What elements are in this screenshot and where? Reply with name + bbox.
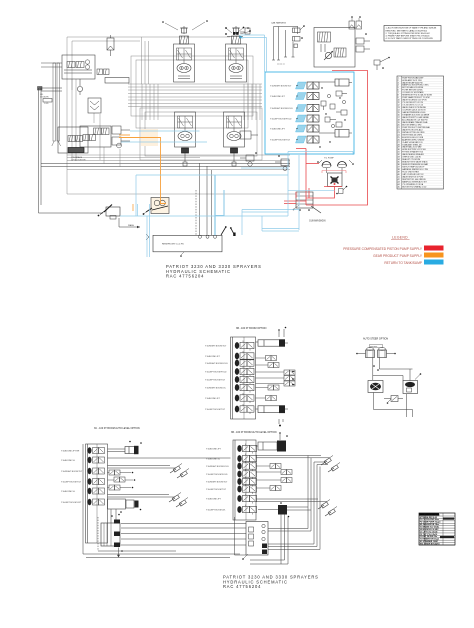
left stack row6 block [108,499,142,513]
pump leader dot [143,209,151,215]
manifold row 6: 6 A LEFT BOOM TILT [270,136,319,143]
lh boom cyl 1b [177,469,189,479]
pump circle and swash [321,44,333,60]
boom valve 8 [235,404,254,414]
left boom master manifold [101,514,120,547]
svg-text:3C - 100 FT BOOM AUTO LEVEL OP: 3C - 100 FT BOOM AUTO LEVEL OPTION [94,427,140,430]
gauge component [77,79,82,95]
pilot b4 [281,470,292,475]
solenoid blobs M2 [227,32,243,36]
fan motor M2 [226,26,247,82]
svg-text:1. ALL HOSES MUST BE OF SAME: 1. ALL HOSES MUST BE OF SAME TYPE AND SI… [386,27,437,30]
hand pump P3 [98,205,120,220]
svg-text:GEAR PRODUCT PUMP SUPPLY: GEAR PRODUCT PUMP SUPPLY [373,254,423,258]
stack bottom lines [279,419,283,426]
svg-text:① A RIGHT BOOM FOLD: ① A RIGHT BOOM FOLD [206,465,229,468]
boom tilt lines right upper [256,456,330,458]
pilot b6 [270,486,281,491]
manifold row 3: 3 A RIGHT BOOM FOLD [270,105,319,112]
boom lift cylinder left [52,63,56,146]
suction arrows into tank [146,226,236,257]
park brake valve block V5 [58,127,88,153]
oil cooler label [40,94,52,105]
pilot valve row3 [268,363,279,368]
boom valve 4 [235,367,254,377]
row4 leader dots [292,371,294,386]
valve V1b [76,62,84,68]
svg-text:GUN/WASHDN: GUN/WASHDN [309,220,326,223]
valve V6b [102,128,110,135]
boom valve b1 [237,444,256,454]
svg-text:① A LEFT BOOM FOLD: ① A LEFT BOOM FOLD [205,370,227,373]
solenoid block dark [68,148,84,153]
aux valve right of M4 [240,131,258,139]
boom valve b4 [237,469,256,479]
left boom tilt cylinder [318,500,330,510]
notes box [384,26,441,42]
boom valve b5 [237,477,256,487]
manifold solenoids dark [242,544,267,560]
piston pump assembly P1 [314,28,355,68]
blue return network [120,131,353,257]
left stack valve 1 [88,447,105,453]
left stack valve 6 [88,499,105,505]
svg-text:RAC 47756204: RAC 47756204 [223,584,261,589]
svg-text:RETURN TO TANK/SUMP: RETURN TO TANK/SUMP [384,261,422,265]
left stack valve 4 [88,478,105,484]
svg-text:① A LEFT BOOM TILT: ① A LEFT BOOM TILT [205,408,226,411]
svg-text:3. PRIME PUMP BEFORE START P: 3. PRIME PUMP BEFORE START P/N 47756204 [386,35,431,38]
svg-text:CAB HARNESS: CAB HARNESS [271,22,287,25]
spring check valve V3 [107,35,114,56]
svg-text:RESERVOIR T-1.4 FD: RESERVOIR T-1.4 FD [162,244,184,246]
coupler box 1 [293,25,305,32]
svg-text:① A BOOM LIFT: ① A BOOM LIFT [270,128,286,131]
boom valve 1 [235,341,254,351]
lh pilot 3 [109,485,120,490]
cyan wedge M2 [240,35,244,38]
accumulator circles [64,60,92,73]
wire routing boundary [41,37,300,194]
svg-text:① A LEFT BOOM TILT: ① A LEFT BOOM TILT [206,488,227,491]
gear pump P2 [146,198,169,214]
stack2 row1 cylinder [256,441,287,452]
boom tilt lines right lower [256,499,327,502]
pilot b5 [281,478,292,483]
manifold row 1: 1 A RIGHT BOOM TILT [270,82,319,89]
legend title [391,236,410,240]
gun manifold valve box [328,173,343,187]
boom valve 3 [235,358,254,368]
manifold down arrow [117,548,123,558]
red line to gun valves [322,171,346,174]
spray gun manifold [317,158,354,174]
manifold row 2: 2 A BOOM LIFT [270,93,319,100]
middle manifold drop lines [250,514,288,564]
manifold row 4: 4 A LEFT BOOM FOLD [270,115,319,122]
label p/s brake [72,156,86,162]
reservoir tank [153,235,222,252]
revision table [419,513,455,545]
steering orbital U2 [403,381,418,394]
svg-text:4. DO NOT PAINT OVER FITTINGS: 4. DO NOT PAINT OVER FITTINGS OR COUPLER… [386,37,434,40]
svg-text:① A LEFT BOOM TILT: ① A LEFT BOOM TILT [205,378,226,381]
stack frame upper middle [231,337,256,419]
stack2 row8 solenoid block [258,502,289,517]
svg-text:P-1 PUMP: P-1 PUMP [324,158,334,160]
small valve below couplers [277,44,298,66]
left manifold feeders [83,444,246,558]
right boom tilt cylinder [321,456,333,466]
svg-text:① A LEFT BOOM FOLD: ① A LEFT BOOM FOLD [206,473,228,476]
wash wand leader [293,205,321,213]
left boom tilt cylinder b [325,507,337,517]
valve cluster N [275,155,289,170]
svg-text:2. TORQUE ALL FITTINGS PER SP: 2. TORQUE ALL FITTINGS PER SPEC B94-1002 [386,32,431,35]
case drain check valve [374,57,390,70]
svg-text:① A BOOM LVL: ① A BOOM LVL [61,490,76,493]
pilot valve row2 [266,356,277,361]
svg-text:① A RIGHT BOOM TILT: ① A RIGHT BOOM TILT [61,470,83,473]
svg-text:① A LEFT BOOM LIFT: ① A LEFT BOOM LIFT [61,501,82,504]
manifold row 5: 5 A BOOM LIFT [270,125,319,132]
pilot b3 [270,464,281,469]
auto steer stub lines [407,394,413,417]
left stack frame [86,444,108,543]
boom valve 5 [235,375,254,385]
pilot valve row4b [284,376,295,381]
steer leader arrow [415,373,421,379]
valve V6d [90,135,96,141]
lh boom cyl 2b [176,498,188,508]
leader dots M1 [162,20,208,30]
wire bus [67,56,290,167]
boom valve 6 [235,383,254,393]
valve below gun manifold [336,186,347,195]
row1 cylinder CYL1 [256,339,289,346]
legend orange bar [424,253,444,258]
pump right side valves [356,33,370,52]
lh boom cyl 2 [169,493,181,503]
boom valve b2 [237,454,256,464]
leader dots M2 [225,27,251,35]
svg-text:AUTO STEER OPTION: AUTO STEER OPTION [363,338,388,341]
stack2 top fittings [279,432,288,440]
boom valve b8 [237,505,256,515]
drop pipes into reservoir [196,163,212,235]
aux valve cluster V7 [112,126,130,148]
pump motor M3 [175,112,196,166]
pilot valve row5 [284,381,295,386]
parts list table [397,76,444,189]
svg-text:xx xxx xx: xx xxx xx [277,64,285,66]
valve V5b [76,136,83,142]
boom valve b6 [237,484,256,494]
orange highlight fill [141,129,158,146]
filter block V4 [88,98,101,113]
steer drop lines [373,358,413,381]
wash line arrow [119,218,140,228]
top-left coupler valve [240,27,293,34]
row6 cylinder [319,130,352,138]
svg-text:① A BOOM LVL: ① A BOOM LVL [61,459,76,462]
rail top connector [38,87,43,91]
wire [39,88,104,213]
product pump block [296,192,313,211]
boom function manifold (blue box) [265,72,354,154]
title bottom [223,575,319,590]
svg-text:① A RIGHT BOOM FOLD: ① A RIGHT BOOM FOLD [270,107,293,110]
manifold bar [105,78,129,84]
svg-text:① A RIGHT BOOM TILT: ① A RIGHT BOOM TILT [206,480,228,483]
relief valves atop pump [349,16,362,29]
left stack boom cylinders row2 [108,466,177,469]
row8 cylinder CYL2 [256,405,289,413]
manifold internal dots [319,87,345,147]
svg-text:PRESSURE COMPENSATED PISTON PU: PRESSURE COMPENSATED PISTON PUMP SUPPLY [343,247,423,251]
orange gear pump supply [119,135,166,204]
valve V2a [97,69,103,75]
valve V6c [83,135,89,141]
cab harness drop lines [272,27,298,61]
boom routing riser bundle [268,456,328,550]
pilot valve row6 [268,385,279,390]
svg-text:RAC 47756204: RAC 47756204 [166,274,204,279]
svg-text:① A BOOM LIFT: ① A BOOM LIFT [270,95,286,98]
wire stubs to cluster A [41,63,62,67]
pump motor M4 [224,112,245,166]
svg-text:LEGEND: LEGEND [392,236,408,240]
svg-text:① A BOOM LIFT: ① A BOOM LIFT [206,497,222,500]
pressure comp valve [318,32,331,42]
boom master manifold [235,517,269,555]
svg-text:① A BOOM LIFT: ① A BOOM LIFT [206,447,222,450]
steer bottom lines [374,393,413,410]
svg-text:① A LEFT BOOM TILT: ① A LEFT BOOM TILT [270,139,291,142]
svg-text:① A RIGHT BOOM TILT: ① A RIGHT BOOM TILT [270,85,292,88]
title top [166,264,262,279]
stack top fittings [278,327,286,337]
steer solenoid valve SV1 [356,348,374,358]
left stack valve 5 [88,488,105,494]
left stack leader dots [132,472,136,489]
steer solenoid valve SV2 [378,348,396,358]
valve V5a [68,136,75,142]
legend blue bar [424,260,444,265]
steer valve label [370,345,383,349]
boom lift cylinder right [57,63,61,146]
red supply line pump to manifold [284,71,368,206]
svg-text:3B - 100 FT BOOM AUTO LEVEL OP: 3B - 100 FT BOOM AUTO LEVEL OPTION [231,431,277,434]
svg-text:① A BOOM LIFT: ① A BOOM LIFT [205,397,221,400]
legend red bar [424,246,444,251]
svg-text:① A LEFT BOOM TILT: ① A LEFT BOOM TILT [61,480,82,483]
junction dots steer [373,365,379,371]
coupler box 2 [293,37,303,42]
valve V2b [104,69,110,75]
orange stub near reservoir [132,204,134,211]
pilot valve row4 [284,370,295,375]
boom valve b7 [237,494,256,504]
left stack row1 cylinder [108,441,142,454]
valve V1a [67,62,75,68]
fan motor M1 [174,26,195,82]
lh pilot 1 [109,470,120,475]
svg-text:WASH: WASH [128,224,134,227]
svg-text:① A LEFT BOOM FOLD: ① A LEFT BOOM FOLD [270,118,292,121]
flow comp valve [334,48,346,57]
left stack valve 3 [88,468,105,474]
svg-text:① A RIGHT BOOM FOLD: ① A RIGHT BOOM FOLD [205,362,228,365]
boom valve 7 [235,393,254,403]
left stack boom cylinders row5 [108,495,176,498]
trailer brake valve block V1 [62,55,95,79]
boom valve 2 [235,351,254,361]
mid row components [321,91,347,128]
manifold internals [249,524,266,546]
svg-text:COOLER: COOLER [40,96,49,98]
svg-text:① A BOOM LIFT: ① A BOOM LIFT [205,355,221,358]
row1 cylinder [319,79,352,86]
svg-text:3B - 100 FT BOOM OPTION: 3B - 100 FT BOOM OPTION [236,327,267,330]
svg-text:LP MOTOR RH: LP MOTOR RH [72,160,86,162]
supply lines into manifold [241,35,267,72]
stack frame lower middle [233,440,256,520]
svg-text:① A RIGHT BOOM TILT: ① A RIGHT BOOM TILT [205,344,227,347]
svg-text:① A RIGHT BOOM LVL: ① A RIGHT BOOM LVL [205,386,227,389]
boom valve b3 [237,461,256,471]
svg-text:① A LEFT BOOM LVL: ① A LEFT BOOM LVL [206,508,226,511]
steering hand pump U1 [368,381,383,393]
lh boom cyl 1 [170,464,182,474]
lh pilot 2 [114,477,125,482]
svg-text:① A BOOM LIFT RH: ① A BOOM LIFT RH [61,449,80,452]
svg-text:REMOVED. SEE PARTS CATALOG 842: REMOVED. SEE PARTS CATALOG 84299102 [386,29,428,32]
pilot valve row7 [266,396,277,401]
gauge cluster M [240,152,257,166]
valve V6a [94,128,102,135]
right boom tilt cylinder b [328,463,340,473]
steering priority valve V6 [80,126,111,147]
left stack valve 2 [88,457,105,463]
steer relief valve [387,396,398,404]
